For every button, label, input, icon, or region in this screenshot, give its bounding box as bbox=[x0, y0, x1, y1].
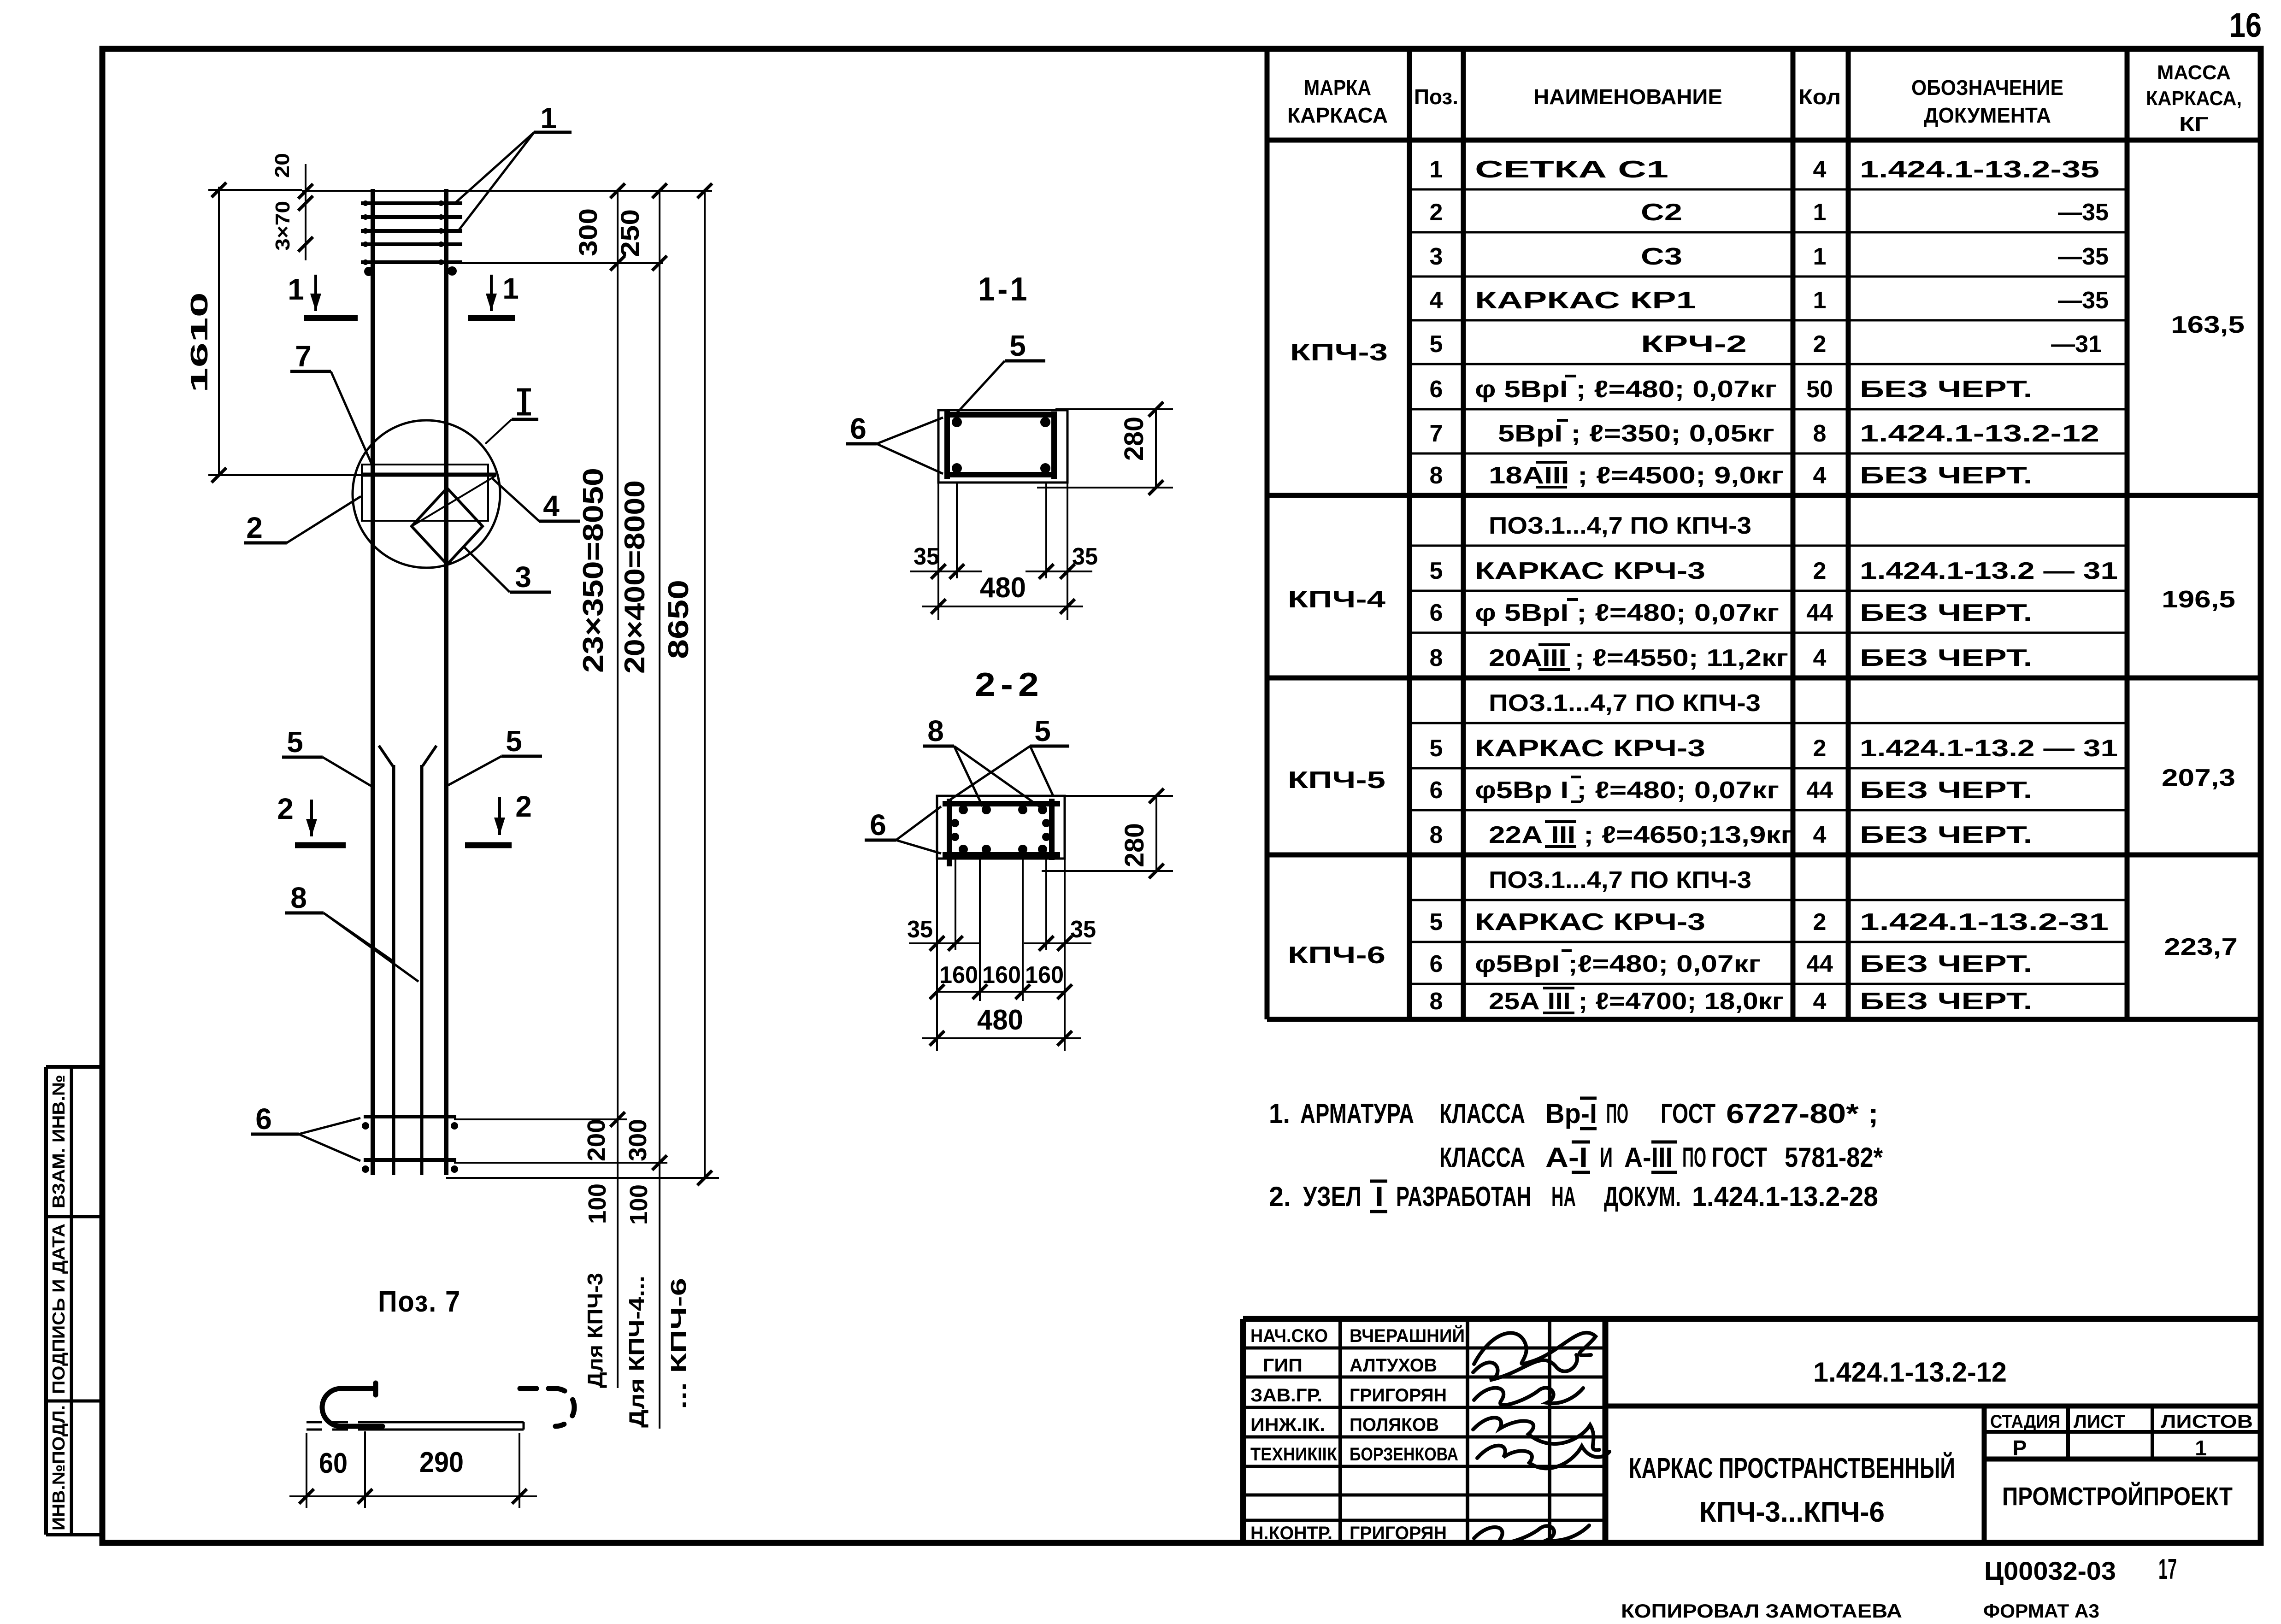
svg-text:35: 35 bbox=[907, 916, 933, 943]
svg-text:ПРОМСТРОЙПРОЕКТ: ПРОМСТРОЙПРОЕКТ bbox=[2002, 1482, 2233, 1511]
svg-text:3: 3 bbox=[1430, 243, 1443, 270]
svg-text:20: 20 bbox=[271, 153, 294, 178]
svg-text:8: 8 bbox=[1813, 420, 1827, 447]
svg-text:1: 1 bbox=[1430, 156, 1443, 183]
svg-text:2: 2 bbox=[1813, 735, 1827, 762]
svg-text:163,5: 163,5 bbox=[2171, 312, 2245, 338]
svg-text:А-III: А-III bbox=[1624, 1142, 1673, 1173]
svg-text:ВЗАМ. ИНВ.№: ВЗАМ. ИНВ.№ bbox=[49, 1075, 69, 1208]
svg-text:44: 44 bbox=[1806, 600, 1833, 626]
svg-text:2: 2 bbox=[1813, 558, 1827, 584]
svg-text:22А III ; ℓ=4650;13,9кг: 22А III ; ℓ=4650;13,9кг bbox=[1489, 822, 1793, 848]
svg-text:17: 17 bbox=[2158, 1553, 2177, 1585]
svg-text:КПЧ-4: КПЧ-4 bbox=[1288, 586, 1385, 613]
svg-text:φ5ВрI ;ℓ=480; 0,07кг: φ5ВрI ;ℓ=480; 0,07кг bbox=[1475, 951, 1761, 977]
svg-text:ПО: ПО bbox=[1606, 1098, 1628, 1129]
svg-text:1: 1 bbox=[288, 273, 304, 306]
svg-text:44: 44 bbox=[1806, 951, 1833, 977]
svg-text:РАЗРАБОТАН: РАЗРАБОТАН bbox=[1396, 1181, 1531, 1212]
svg-text:280: 280 bbox=[1120, 823, 1149, 867]
svg-text:СЕТКА С1: СЕТКА С1 bbox=[1475, 156, 1668, 183]
svg-text:35: 35 bbox=[1070, 916, 1096, 943]
svg-text:1.424.1-13.2-12: 1.424.1-13.2-12 bbox=[1860, 420, 2099, 447]
svg-text:МАРКА: МАРКА bbox=[1304, 76, 1371, 100]
svg-text:Поз.: Поз. bbox=[1414, 85, 1458, 109]
svg-text:50: 50 bbox=[1806, 376, 1833, 403]
svg-text:3: 3 bbox=[515, 560, 531, 594]
svg-text:1610: 1610 bbox=[186, 292, 213, 393]
svg-text:196,5: 196,5 bbox=[2162, 586, 2235, 613]
svg-text:6: 6 bbox=[255, 1102, 272, 1136]
svg-text:2.: 2. bbox=[1269, 1181, 1291, 1212]
svg-text:—35: —35 bbox=[2058, 243, 2109, 270]
svg-text:ЛИСТОВ: ЛИСТОВ bbox=[2161, 1412, 2253, 1432]
svg-text:БЕЗ ЧЕРТ.: БЕЗ ЧЕРТ. bbox=[1860, 988, 2033, 1015]
svg-text:БЕЗ ЧЕРТ.: БЕЗ ЧЕРТ. bbox=[1860, 951, 2033, 977]
svg-text:1-1: 1-1 bbox=[978, 271, 1030, 308]
svg-text:ТЕХНИКIIК: ТЕХНИКIIК bbox=[1250, 1444, 1338, 1465]
svg-text:1.424.1-13.2 — 31: 1.424.1-13.2 — 31 bbox=[1860, 558, 2118, 584]
svg-text:КАРКАС КРЧ-3: КАРКАС КРЧ-3 bbox=[1475, 735, 1705, 762]
svg-text:КГ: КГ bbox=[2179, 113, 2209, 135]
svg-text:ДОКУМЕНТА: ДОКУМЕНТА bbox=[1924, 103, 2051, 127]
svg-text:КАРКАСА,: КАРКАСА, bbox=[2146, 87, 2242, 110]
svg-text:5781-82*: 5781-82* bbox=[1785, 1142, 1883, 1173]
svg-text:2: 2 bbox=[515, 790, 532, 823]
svg-text:1.424.1-13.2-28: 1.424.1-13.2-28 bbox=[1692, 1181, 1878, 1212]
svg-text:8: 8 bbox=[1430, 988, 1443, 1015]
svg-text:БЕЗ ЧЕРТ.: БЕЗ ЧЕРТ. bbox=[1860, 462, 2033, 489]
svg-text:ГИП: ГИП bbox=[1263, 1355, 1303, 1376]
svg-text:... КПЧ-6: ... КПЧ-6 bbox=[666, 1278, 690, 1409]
svg-text:2: 2 bbox=[277, 792, 294, 825]
svg-text:Р: Р bbox=[2013, 1436, 2027, 1460]
svg-text:160: 160 bbox=[1025, 962, 1064, 989]
svg-text:200: 200 bbox=[583, 1119, 610, 1161]
svg-text:480: 480 bbox=[977, 1004, 1023, 1036]
svg-text:ПОЗ.1...4,7 ПО КПЧ-3: ПОЗ.1...4,7 ПО КПЧ-3 bbox=[1489, 867, 1751, 894]
svg-text:8: 8 bbox=[1430, 462, 1443, 489]
svg-text:100: 100 bbox=[625, 1184, 653, 1225]
svg-text:КПЧ-5: КПЧ-5 bbox=[1288, 767, 1385, 794]
svg-text:ДОКУМ.: ДОКУМ. bbox=[1604, 1181, 1681, 1212]
svg-text:БЕЗ ЧЕРТ.: БЕЗ ЧЕРТ. bbox=[1860, 600, 2033, 626]
svg-text:1: 1 bbox=[502, 272, 519, 305]
svg-text:φ 5ВрI ; ℓ=480; 0,07кг: φ 5ВрI ; ℓ=480; 0,07кг bbox=[1475, 600, 1779, 626]
svg-text:Кол: Кол bbox=[1798, 85, 1841, 109]
svg-text:—31: —31 bbox=[2051, 331, 2102, 358]
svg-text:207,3: 207,3 bbox=[2162, 765, 2235, 791]
svg-text:ПОДПИСЬ И ДАТА: ПОДПИСЬ И ДАТА bbox=[49, 1224, 69, 1394]
svg-text:ПОЗ.1...4,7 ПО КПЧ-3: ПОЗ.1...4,7 ПО КПЧ-3 bbox=[1489, 690, 1761, 717]
svg-text:КПЧ-6: КПЧ-6 bbox=[1288, 942, 1385, 969]
svg-text:АРМАТУРА: АРМАТУРА bbox=[1300, 1098, 1414, 1129]
svg-text:4: 4 bbox=[1813, 822, 1827, 848]
svg-text:1: 1 bbox=[1813, 287, 1827, 314]
svg-text:223,7: 223,7 bbox=[2164, 934, 2238, 960]
svg-text:1: 1 bbox=[1813, 199, 1827, 226]
svg-text:18АIII ; ℓ=4500; 9,0кг: 18АIII ; ℓ=4500; 9,0кг bbox=[1489, 462, 1784, 489]
svg-text:—35: —35 bbox=[2058, 287, 2109, 314]
svg-text:1.424.1-13.2 — 31: 1.424.1-13.2 — 31 bbox=[1860, 735, 2118, 762]
svg-text:25А III ; ℓ=4700; 18,0кг: 25А III ; ℓ=4700; 18,0кг bbox=[1489, 988, 1784, 1015]
svg-text:1: 1 bbox=[540, 101, 557, 135]
svg-text:23×350=8050: 23×350=8050 bbox=[578, 468, 609, 673]
svg-text:БЕЗ ЧЕРТ.: БЕЗ ЧЕРТ. bbox=[1860, 822, 2033, 848]
svg-text:ИНВ.№ПОДЛ.: ИНВ.№ПОДЛ. bbox=[49, 1405, 69, 1530]
svg-text:ГОСТ: ГОСТ bbox=[1712, 1142, 1767, 1173]
svg-text:КОПИРОВАЛ ЗАМОТАЕВА: КОПИРОВАЛ ЗАМОТАЕВА bbox=[1621, 1600, 1902, 1622]
svg-text:БЕЗ ЧЕРТ.: БЕЗ ЧЕРТ. bbox=[1860, 777, 2033, 804]
svg-text:2: 2 bbox=[1813, 909, 1827, 936]
svg-text:БЕЗ ЧЕРТ.: БЕЗ ЧЕРТ. bbox=[1860, 376, 2033, 403]
svg-text:5: 5 bbox=[1034, 714, 1051, 747]
svg-text:6: 6 bbox=[870, 808, 886, 841]
svg-text:5: 5 bbox=[1009, 329, 1026, 362]
svg-text:6: 6 bbox=[1430, 600, 1443, 626]
svg-text:ОБОЗНАЧЕНИЕ: ОБОЗНАЧЕНИЕ bbox=[1911, 76, 2063, 100]
svg-text:ФОРМАТ А3: ФОРМАТ А3 bbox=[1983, 1600, 2099, 1622]
svg-text:ЗАВ.ГР.: ЗАВ.ГР. bbox=[1250, 1385, 1322, 1406]
svg-text:ЛИСТ: ЛИСТ bbox=[2074, 1412, 2125, 1432]
svg-text:ГОСТ: ГОСТ bbox=[1661, 1098, 1715, 1129]
svg-text:ВЧЕРАШНИЙ: ВЧЕРАШНИЙ bbox=[1350, 1325, 1465, 1346]
svg-text:44: 44 bbox=[1806, 777, 1833, 804]
svg-text:5: 5 bbox=[1430, 558, 1443, 584]
svg-text:Для КПЧ-3: Для КПЧ-3 bbox=[583, 1273, 607, 1388]
svg-text:2: 2 bbox=[1430, 199, 1443, 226]
svg-text:6: 6 bbox=[1430, 777, 1443, 804]
svg-text:16: 16 bbox=[2229, 6, 2262, 44]
svg-text:160: 160 bbox=[939, 962, 978, 989]
svg-text:2: 2 bbox=[246, 511, 263, 544]
svg-text:КАРКАС КРЧ-3: КАРКАС КРЧ-3 bbox=[1475, 558, 1705, 584]
svg-text:С3: С3 bbox=[1641, 243, 1682, 270]
svg-text:6: 6 bbox=[1430, 376, 1443, 403]
svg-text:3×70: 3×70 bbox=[271, 201, 294, 251]
svg-text:8: 8 bbox=[1430, 822, 1443, 848]
svg-text:300: 300 bbox=[624, 1119, 652, 1161]
svg-text:2-2: 2-2 bbox=[975, 666, 1044, 703]
svg-text:КПЧ-3...КПЧ-6: КПЧ-3...КПЧ-6 bbox=[1699, 1496, 1885, 1528]
svg-text:А-I: А-I bbox=[1545, 1142, 1588, 1173]
svg-text:НА: НА bbox=[1551, 1181, 1576, 1212]
svg-text:КЛАССА: КЛАССА bbox=[1439, 1098, 1525, 1129]
svg-text:250: 250 bbox=[615, 209, 644, 257]
svg-text:280: 280 bbox=[1119, 417, 1149, 461]
svg-text:4: 4 bbox=[1813, 988, 1827, 1015]
svg-text:1.424.1-13.2-12: 1.424.1-13.2-12 bbox=[1813, 1357, 2007, 1388]
svg-text:8: 8 bbox=[290, 881, 307, 914]
svg-text:6727-80* ;: 6727-80* ; bbox=[1726, 1098, 1879, 1129]
svg-text:КАРКАС КРЧ-3: КАРКАС КРЧ-3 bbox=[1475, 909, 1705, 936]
svg-text:С2: С2 bbox=[1641, 199, 1682, 226]
svg-text:2: 2 bbox=[1813, 331, 1827, 358]
svg-text:КАРКАС КР1: КАРКАС КР1 bbox=[1475, 287, 1696, 314]
svg-text:1: 1 bbox=[2195, 1436, 2207, 1460]
svg-text:ГРИГОРЯН: ГРИГОРЯН bbox=[1350, 1385, 1447, 1406]
svg-text:4: 4 bbox=[1813, 462, 1827, 489]
svg-text:И: И bbox=[1600, 1142, 1613, 1173]
svg-text:1.424.1-13.2-35: 1.424.1-13.2-35 bbox=[1860, 156, 2099, 183]
svg-text:480: 480 bbox=[980, 572, 1026, 604]
svg-text:7: 7 bbox=[295, 340, 312, 373]
svg-text:5: 5 bbox=[287, 725, 303, 759]
svg-text:1: 1 bbox=[1813, 243, 1827, 270]
svg-text:290: 290 bbox=[419, 1447, 464, 1478]
svg-text:КПЧ-3: КПЧ-3 bbox=[1290, 339, 1388, 366]
svg-text:ГРИГОРЯН: ГРИГОРЯН bbox=[1350, 1523, 1447, 1543]
svg-text:35: 35 bbox=[914, 543, 939, 570]
svg-text:6: 6 bbox=[1430, 951, 1443, 977]
svg-text:БОРЗЕНКОВА: БОРЗЕНКОВА bbox=[1350, 1444, 1458, 1465]
svg-text:ПОЗ.1...4,7 ПО КПЧ-3: ПОЗ.1...4,7 ПО КПЧ-3 bbox=[1489, 512, 1751, 539]
svg-text:КАРКАС ПРОСТРАНСТВЕННЫЙ: КАРКАС ПРОСТРАНСТВЕННЫЙ bbox=[1629, 1452, 1955, 1484]
svg-text:ИНЖ.IК.: ИНЖ.IК. bbox=[1250, 1415, 1325, 1435]
svg-text:20АIII ; ℓ=4550; 11,2кг: 20АIII ; ℓ=4550; 11,2кг bbox=[1489, 645, 1788, 671]
svg-text:4: 4 bbox=[1813, 645, 1827, 671]
svg-text:5: 5 bbox=[1430, 909, 1443, 936]
svg-text:φ 5ВрI ; ℓ=480; 0,07кг: φ 5ВрI ; ℓ=480; 0,07кг bbox=[1475, 376, 1777, 403]
svg-text:300: 300 bbox=[573, 208, 602, 256]
svg-text:4: 4 bbox=[1430, 287, 1443, 314]
svg-text:Вр-I: Вр-I bbox=[1545, 1098, 1597, 1129]
svg-text:Поз. 7: Поз. 7 bbox=[378, 1285, 461, 1318]
svg-text:НАИМЕНОВАНИЕ: НАИМЕНОВАНИЕ bbox=[1533, 85, 1722, 109]
svg-text:ПО: ПО bbox=[1682, 1142, 1706, 1173]
svg-text:ПОЛЯКОВ: ПОЛЯКОВ bbox=[1350, 1415, 1439, 1435]
svg-text:—35: —35 bbox=[2058, 199, 2109, 226]
svg-text:МАССА: МАССА bbox=[2157, 61, 2231, 84]
svg-text:5: 5 bbox=[1430, 331, 1443, 358]
svg-text:1.: 1. bbox=[1269, 1098, 1290, 1129]
svg-text:8: 8 bbox=[1430, 645, 1443, 671]
svg-text:4: 4 bbox=[543, 489, 560, 523]
svg-text:35: 35 bbox=[1072, 543, 1098, 570]
svg-text:φ5Вр I ; ℓ=480; 0,07кг: φ5Вр I ; ℓ=480; 0,07кг bbox=[1475, 777, 1779, 804]
svg-text:1.424.1-13.2-31: 1.424.1-13.2-31 bbox=[1860, 909, 2109, 936]
svg-text:60: 60 bbox=[319, 1447, 348, 1479]
svg-text:БЕЗ ЧЕРТ.: БЕЗ ЧЕРТ. bbox=[1860, 645, 2033, 671]
svg-text:Н.КОНТР.: Н.КОНТР. bbox=[1250, 1523, 1332, 1543]
svg-text:НАЧ.СКО: НАЧ.СКО bbox=[1250, 1326, 1328, 1346]
svg-text:I: I bbox=[1375, 1181, 1384, 1212]
svg-text:6: 6 bbox=[850, 412, 866, 445]
svg-text:8650: 8650 bbox=[663, 580, 695, 659]
svg-text:СТАДИЯ: СТАДИЯ bbox=[1990, 1412, 2060, 1432]
svg-text:КЛАССА: КЛАССА bbox=[1439, 1142, 1525, 1173]
svg-text:5: 5 bbox=[1430, 735, 1443, 762]
svg-text:5ВрI ; ℓ=350; 0,05кг: 5ВрI ; ℓ=350; 0,05кг bbox=[1498, 420, 1774, 447]
svg-text:УЗЕЛ: УЗЕЛ bbox=[1303, 1181, 1362, 1212]
svg-text:Для КПЧ-4...: Для КПЧ-4... bbox=[625, 1276, 648, 1428]
svg-text:КРЧ-2: КРЧ-2 bbox=[1641, 331, 1747, 358]
svg-text:4: 4 bbox=[1813, 156, 1827, 183]
svg-text:КАРКАСА: КАРКАСА bbox=[1287, 103, 1388, 127]
svg-text:100: 100 bbox=[584, 1183, 611, 1224]
svg-text:АЛТУХОВ: АЛТУХОВ bbox=[1350, 1355, 1437, 1376]
svg-text:20×400=8000: 20×400=8000 bbox=[619, 480, 651, 674]
svg-text:7: 7 bbox=[1430, 420, 1443, 447]
svg-text:5: 5 bbox=[506, 724, 522, 758]
svg-text:160: 160 bbox=[982, 962, 1021, 989]
svg-text:Ц00032-03: Ц00032-03 bbox=[1984, 1556, 2116, 1585]
svg-text:8: 8 bbox=[927, 714, 944, 747]
